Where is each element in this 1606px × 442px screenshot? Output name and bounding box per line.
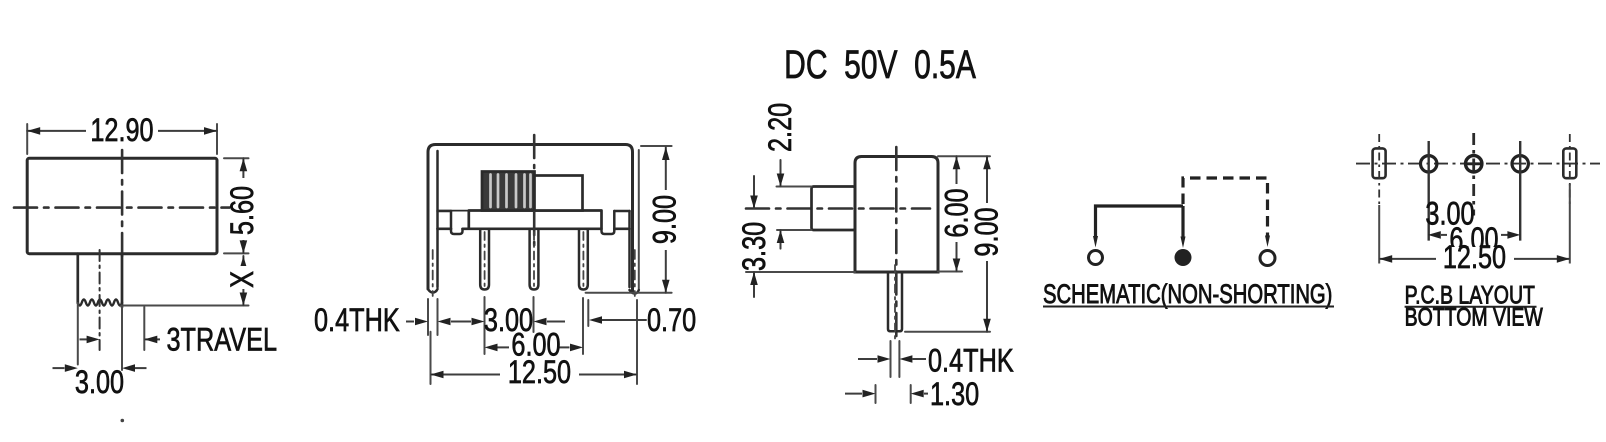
svg-text:5.60: 5.60 [225,186,261,235]
0.70 arrow [589,316,602,324]
svg-text:SCHEMATIC(NON-SHORTING): SCHEMATIC(NON-SHORTING) [1043,279,1332,310]
side body [855,157,938,273]
1.30 ext lines [876,385,911,403]
knob flat part [535,176,583,211]
solid wire left L [1096,206,1184,238]
0.70 dim line [602,319,646,321]
5.60 text [230,178,257,240]
center vertical dash-dot [533,135,536,245]
12.50 dim (front) [431,374,638,376]
right slot centerline [1569,134,1571,205]
right leg bottom [630,290,639,294]
9.00 text (front) [652,190,679,250]
horizontal centerline [14,206,232,209]
6.00 dim (front) [498,346,510,348]
6.00 dim (pcb) [1441,234,1447,236]
stray dot [121,419,125,423]
serration ridges [491,175,531,208]
pin 2 [530,229,539,290]
leg thickness ext lines [428,299,438,335]
hole2 centerline heavy [1472,133,1475,216]
0.4THK arrow [406,321,414,323]
actuator centerline [99,250,101,350]
pin 2 centerline [533,232,535,286]
body outline left wall and top [428,145,633,293]
pin centerline [894,265,896,340]
svg-text:0.4THK: 0.4THK [314,303,400,339]
pcb label underline [1405,306,1537,308]
X arrows [240,256,248,269]
dim text 12.90 [86,117,158,144]
actuator right edge [121,254,124,307]
hole2 cross bar [1465,162,1484,165]
actuator left edge [76,254,79,303]
pin 1 [480,229,489,290]
left inner wall [436,151,439,287]
pin 3 [579,229,588,290]
actuator right edge extension [121,307,123,370]
left slot centerline [1378,134,1380,205]
hole 3 [1512,156,1528,172]
vertical centerline [121,150,124,262]
0.4THK arrows (side) [858,358,877,360]
body top ext right [938,155,990,157]
6.00 arrows (side) [953,156,961,169]
rect top ext to dim line [224,157,249,159]
9.00 arrows (side) [983,156,991,169]
schematic label underline [1043,306,1334,308]
travel arrow to centerline [80,338,89,340]
actuator left edge extension [77,303,79,365]
svg-text:0.70: 0.70 [647,303,696,339]
3.30 arrows [750,196,758,209]
travel position line [143,307,145,350]
pin bottom level ext line [586,292,672,294]
body vertical centerline [895,147,898,340]
svg-text:12.50: 12.50 [508,355,571,391]
terminal 1 circle [1089,251,1103,265]
dim 12.90 line [27,130,217,132]
right outer thin edge [638,150,640,290]
hole 1 [1421,156,1437,172]
9.00 arrows (front) [662,147,670,160]
9.00 dim line [665,147,667,293]
X bottom ext line [121,305,249,307]
flange outline [438,211,630,229]
dim 3.00 arrows (outside) [53,367,65,369]
left slot [1373,148,1386,178]
actuator serrated break line [78,300,122,306]
pin 1 centerline [484,232,486,286]
switch body rectangle [27,158,217,253]
dim 12.90 arrows [27,127,40,135]
dim line 5.60 / X vertical [242,158,244,305]
right slot [1563,148,1576,178]
svg-text:9.00: 9.00 [970,207,1006,256]
wire arrow mid [1181,237,1186,249]
body bottom ext left [746,271,855,273]
left leg bottom [428,289,438,293]
svg-text:3.30: 3.30 [737,222,773,271]
knob serrated part [482,172,535,211]
svg-text:BOTTOM VIEW: BOTTOM VIEW [1405,303,1544,331]
12.50 dim (pcb) [1379,258,1570,260]
double arrow between 437.5 and 484.5 [451,321,471,323]
12.50 ext lines (pcb) [1379,184,1570,264]
pin bottom ext right [905,331,990,333]
svg-text:0.4THK: 0.4THK [928,344,1014,380]
knob bottom ext [777,229,812,231]
dashed wire [1183,178,1268,236]
right leg centerline [634,250,636,296]
2.20 arrows [777,174,785,187]
X text [231,266,256,289]
hole3 vertical line [1519,141,1521,241]
5.60 arrows [240,158,248,171]
6.00 dim line (side) [956,156,958,271]
body bottom ext right [938,271,962,273]
wire arrow right [1265,236,1270,248]
3TRAVEL arrow [144,338,160,340]
2.20 dim line [780,160,782,249]
1.30 arrows [845,393,862,395]
3.00 right arrow [547,321,565,323]
knob horizontal centerline [746,207,930,210]
step line left [438,210,452,213]
pin 3 centerline [582,232,584,286]
solid wire mid [1181,206,1184,238]
svg-text:12.90: 12.90 [90,113,153,149]
hole1 vertical line [1427,141,1429,241]
svg-text:1.30: 1.30 [930,377,979,413]
left leg centerline [432,250,434,296]
svg-text:3.00: 3.00 [75,365,124,401]
12.50 ext lines [431,300,638,384]
side knob [812,187,856,231]
rect bottom ext to dim line [224,252,249,254]
knob top ext [777,186,812,188]
3.30 dim line [753,176,755,297]
svg-text:DC 50V 0.5A: DC 50V 0.5A [784,43,976,87]
body top ext line [641,145,672,147]
svg-text:2.20: 2.20 [763,103,799,152]
left tab [451,211,463,234]
svg-text:12.50: 12.50 [1443,240,1506,276]
dim 12.90 extension lines [27,124,217,154]
pcb main centerline [1356,163,1600,165]
terminal 2 filled circle [1175,249,1192,266]
pin center ext lines [485,297,584,354]
step line right [614,210,629,213]
svg-text:3TRAVEL: 3TRAVEL [167,323,278,359]
side pin [888,272,902,331]
wire arrow left [1093,236,1098,248]
right inner wall [628,211,631,287]
right tab [602,211,615,234]
0.4THK ext lines (side) [891,341,900,377]
svg-text:9.00: 9.00 [648,195,684,244]
9.00 dim line (side) [986,156,988,332]
hole 2 [1466,156,1482,172]
pin3 right edge ext [587,300,589,326]
flange top full [438,210,469,212]
svg-text:X: X [225,271,261,288]
terminal 3 circle [1260,251,1275,266]
